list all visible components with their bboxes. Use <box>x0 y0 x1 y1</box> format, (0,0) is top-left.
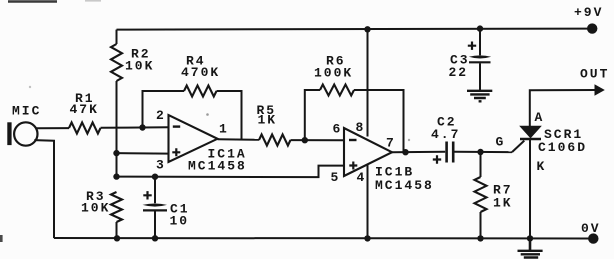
svg-text:A: A <box>535 110 545 125</box>
svg-text:22: 22 <box>449 65 469 80</box>
svg-text:OUT: OUT <box>580 67 609 82</box>
wire: C2 to gate node <box>455 151 513 153</box>
wire: bias node to IC1A pin 3 <box>117 152 169 155</box>
SCR1 C106D <box>520 126 540 137</box>
capacitor C2 4.7 (coupling) <box>447 142 454 163</box>
wire: bias node to IC1B pin 5 <box>117 166 345 178</box>
wire: IC1B pin 4 to ground rail <box>367 165 369 239</box>
wire: mic return to ground rail <box>34 140 54 238</box>
terminal OUT (arrow) <box>595 84 605 96</box>
svg-text:47K: 47K <box>70 102 99 117</box>
junction: R6 feedback at pin 6 <box>302 137 308 143</box>
svg-text:10K: 10K <box>125 59 154 74</box>
svg-text:3: 3 <box>156 158 166 173</box>
junction: C1 to ground rail <box>152 235 158 241</box>
junction: bias divider node <box>113 173 119 179</box>
wire: +9V supply rail <box>117 29 588 30</box>
wire: SCR cathode to ground rail <box>529 139 531 238</box>
wire: 0V ground rail <box>54 237 589 240</box>
polarity + of C1 <box>143 191 151 199</box>
svg-text:G: G <box>496 135 506 150</box>
svg-text:10K: 10K <box>81 201 110 216</box>
scan artifact top-left <box>8 0 57 2</box>
svg-text:0V: 0V <box>581 221 601 236</box>
microphone MIC <box>7 122 11 145</box>
resistor R4 470K (IC1A feedback loop) <box>143 91 185 128</box>
wire: R5 to IC1B pin 6 <box>291 139 345 141</box>
svg-text:7: 7 <box>386 136 396 151</box>
junction: R3 to ground rail <box>114 235 120 241</box>
svg-text:1: 1 <box>219 122 229 137</box>
wire: V+ rail to IC1B pin 8 <box>367 29 369 136</box>
terminal 0V <box>588 233 598 243</box>
svg-text:+9V: +9V <box>574 5 603 20</box>
polarity + of C3 <box>468 42 476 50</box>
resistor R1 47K <box>69 123 101 134</box>
wire: gate lead to SCR <box>512 141 524 153</box>
svg-text:MIC: MIC <box>12 104 41 119</box>
ground symbol (C3) <box>467 91 492 102</box>
svg-text:10: 10 <box>170 214 190 229</box>
junction: feedback node at pin 2 <box>139 124 145 130</box>
junction: R7 to ground rail <box>477 235 483 241</box>
svg-text:C106D: C106D <box>538 140 587 155</box>
resistor R2 10K (supply to bias divider) <box>116 30 118 44</box>
wire: mic to R1 <box>36 127 69 129</box>
svg-text:470K: 470K <box>181 65 220 80</box>
capacitor C1 10 (bias decoupling) <box>154 177 156 204</box>
svg-text:4.7: 4.7 <box>431 127 460 142</box>
svg-text:6: 6 <box>333 122 343 137</box>
polarity + of C2 <box>433 155 441 163</box>
wire: R2 down to bias node (crosses signal wire) <box>116 81 118 177</box>
resistor R6 100K (IC1B feedback loop) <box>305 90 320 140</box>
wire: IC1A output to R5 <box>218 138 260 141</box>
svg-text:MC1458: MC1458 <box>375 178 434 193</box>
svg-text:2: 2 <box>156 108 166 123</box>
svg-text:1K: 1K <box>258 113 278 128</box>
op-amp IC1A MC1458 <box>169 115 218 162</box>
svg-text:4: 4 <box>357 170 367 185</box>
svg-text:1K: 1K <box>493 196 513 211</box>
capacitor C3 22 (supply decoupling) <box>477 25 483 31</box>
junction: gate node <box>477 149 483 155</box>
wire: IC1B output to C2 <box>392 151 445 154</box>
wire: SCR anode up to OUT <box>530 90 596 126</box>
op-amp IC1B MC1458 <box>344 128 392 176</box>
svg-text:MC1458: MC1458 <box>188 159 247 174</box>
resistor R7 1K (gate pulldown) <box>480 152 482 177</box>
svg-text:K: K <box>537 159 547 174</box>
junction: pin8 supply tap on rail <box>364 26 370 32</box>
junction: cathode on rail <box>527 235 533 241</box>
resistor R5 1K <box>259 135 291 146</box>
svg-text:5: 5 <box>331 170 341 185</box>
resistor R3 10K (bias divider lower leg) <box>111 192 122 222</box>
junction: C1 tap <box>152 174 158 180</box>
terminal +9V <box>587 23 597 33</box>
svg-text:100K: 100K <box>314 66 353 81</box>
wire: R1 to IC1A pin 2 <box>101 126 169 129</box>
junction: R6 feedback at output <box>402 149 408 155</box>
ground symbol (bottom) <box>529 238 532 250</box>
junction: pin4 on ground rail <box>364 235 370 241</box>
junction: bias at pin 3 <box>113 150 119 156</box>
svg-text:8: 8 <box>356 120 366 135</box>
